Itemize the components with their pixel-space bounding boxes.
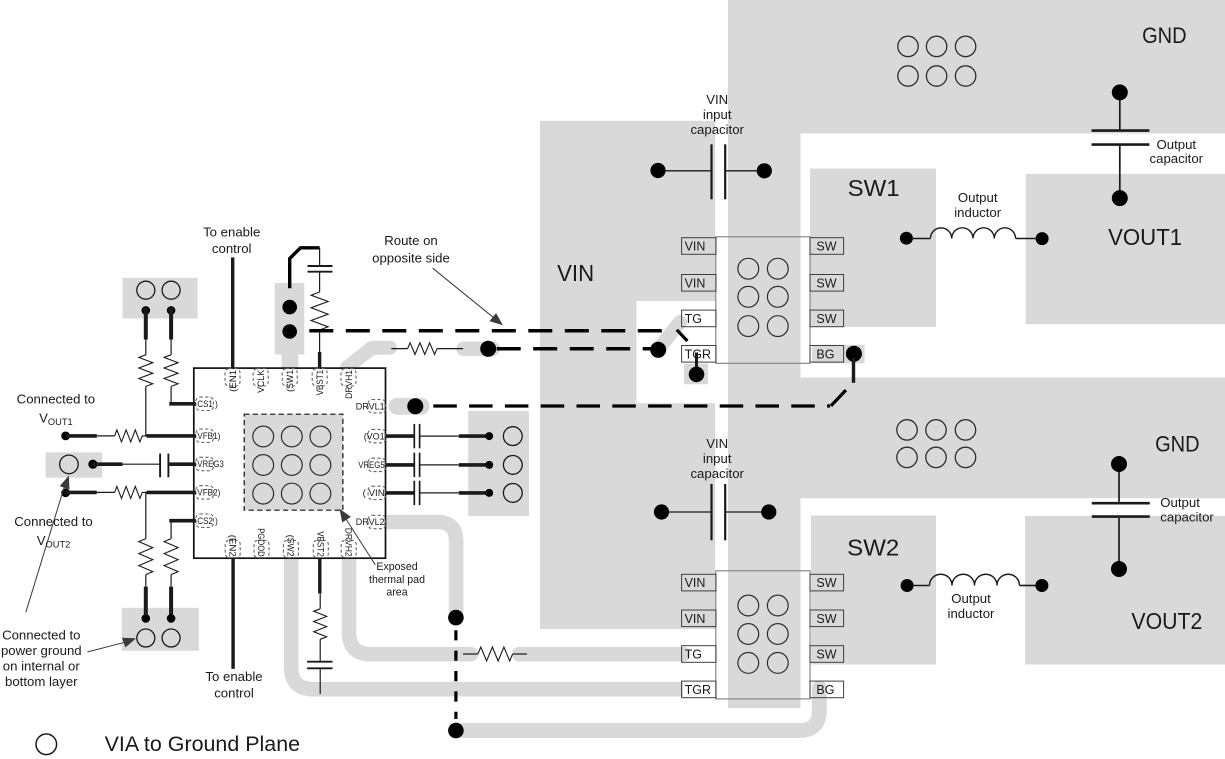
wire VFB1 pin stub — [147, 434, 196, 438]
svg-text:Connected to: Connected to — [2, 627, 80, 642]
node L1 left dot — [900, 232, 913, 245]
capacitor C-VIN bypass with wire and via — [386, 481, 523, 505]
wire R2 top lead — [170, 340, 172, 355]
capacitor C2 (BST1 bootstrap) — [308, 265, 333, 267]
svg-text:capacitor: capacitor — [1150, 151, 1204, 166]
via pad bottom-left (CS2/VFB2 ground vias) — [122, 608, 199, 651]
wire VFB1 thin lead — [97, 435, 115, 437]
resistor R9 (BST2 series) — [314, 609, 327, 640]
svg-text:TG: TG — [685, 648, 702, 662]
wire CS2 stub — [169, 519, 196, 523]
wire R5 bottom lead — [145, 575, 147, 587]
U1 pin VBST2 (bottom) — [313, 531, 328, 558]
U1 pin DRVL2 (right) — [356, 515, 386, 528]
svg-text:VFB2): VFB2) — [197, 488, 220, 498]
svg-text:SW2: SW2 — [847, 535, 899, 561]
via pad BST1 — [275, 283, 305, 355]
wire VFB2 thin lead — [97, 491, 115, 493]
U1 pin CS1 (left) — [196, 397, 218, 410]
via top-left 2 — [162, 281, 180, 299]
wire R1 bottom lead to VFB1 node — [145, 386, 147, 436]
wire R4 to VFB2 pin — [142, 491, 146, 493]
ground plane GND top copper pour — [729, 0, 1225, 134]
node C5 left dot — [654, 504, 669, 519]
via grid GND top plane (3x2 ground vias) — [898, 36, 976, 86]
wire R1 top lead — [145, 340, 147, 355]
node BST1 via dot lower — [282, 324, 297, 339]
svg-text:input: input — [703, 107, 732, 122]
via VREG3 pad — [60, 455, 79, 474]
node L2 right dot — [1035, 579, 1048, 592]
wire C1 to VREG3 pin — [169, 462, 196, 466]
svg-text:VOUT2: VOUT2 — [37, 533, 71, 550]
resistor R7 (BST1 series) — [311, 292, 328, 330]
wire CS2 down to R6 — [170, 521, 172, 539]
trace BG2 return to via — [463, 688, 819, 731]
node C6 bottom dot (VOUT1) — [1112, 190, 1128, 206]
node DRVL1 route via dot — [407, 398, 423, 414]
wire VREG3 thick stub — [93, 462, 123, 466]
U1 pin VREG5 (right) — [358, 458, 385, 471]
U1 pin VO1 (right) — [364, 429, 386, 442]
svg-text:control: control — [212, 241, 252, 256]
wire top-left stub 1 — [144, 308, 148, 340]
wire dashed route diagonal to BG1 — [831, 390, 846, 406]
trace DRVH1 to gate resistor — [347, 348, 390, 368]
node L1 right dot — [1036, 232, 1049, 245]
SW2 copper pour — [811, 516, 936, 665]
node BG2 route via dot — [448, 723, 464, 739]
svg-text:power ground: power ground — [1, 643, 82, 658]
svg-text:SW: SW — [816, 612, 836, 626]
junction dot VREG3 — [88, 460, 97, 469]
U1 pin SW2 (bottom) — [283, 535, 298, 558]
svg-text:bottom layer: bottom layer — [5, 674, 78, 689]
svg-text:TG: TG — [685, 312, 702, 326]
svg-text:Connected to: Connected to — [14, 514, 92, 529]
wire dashed route diagonal into TGR1 — [677, 330, 688, 341]
wire dashed route DRVL1 to BG1 (opposite side) — [433, 404, 830, 407]
junction dot top-left 2 — [167, 306, 176, 315]
wire C2 to R7 — [319, 272, 321, 292]
svg-text:VREG3: VREG3 — [197, 459, 224, 469]
trace pill before TGR1 route via — [464, 341, 493, 356]
wire R2 bottom lead to CS1 — [170, 386, 172, 403]
wire C2 top lead — [319, 248, 321, 266]
wire CS1 stub — [169, 402, 196, 406]
svg-text:TGR: TGR — [685, 683, 711, 697]
svg-text:Route on: Route on — [384, 233, 438, 248]
capacitor C-VO1 bypass with wire and via — [386, 424, 523, 448]
U1 pin VBST1 (top) — [312, 369, 327, 396]
U1 pin PGOOD (bottom) — [254, 528, 269, 558]
U1 pin EN2 (bottom) — [225, 535, 240, 558]
svg-text:VIN: VIN — [685, 576, 706, 590]
SW1 copper pour — [810, 169, 936, 327]
svg-text:thermal pad: thermal pad — [369, 574, 425, 586]
arrow exposed thermal pad — [345, 518, 375, 565]
svg-text:capacitor: capacitor — [1160, 510, 1214, 525]
wire SW1 to BST1 capacitor — [290, 248, 320, 288]
node TGR1 via dot — [689, 367, 705, 383]
svg-text:capacitor: capacitor — [690, 466, 744, 481]
trace via to TG1 pad — [659, 322, 681, 349]
resistor R8 (TG1 gate) — [408, 343, 437, 355]
wire TGR1 to via — [695, 353, 698, 375]
svg-text:SW: SW — [816, 576, 836, 590]
svg-text:(SW1: (SW1 — [285, 370, 295, 392]
capacitor C7 (output capacitor 2) — [1092, 502, 1150, 505]
junction dot bottom-left 1 — [142, 614, 151, 623]
transistor pair Q1 (SW1 power stage FETs) — [682, 237, 844, 363]
trace DRVH2 pin to TG2 (segment B) — [520, 647, 684, 662]
wire C5 left lead — [666, 511, 712, 513]
svg-text:(EN1: (EN1 — [228, 370, 238, 392]
svg-text:area: area — [386, 586, 407, 598]
svg-text:Connected to: Connected to — [17, 392, 95, 407]
ground plane GND lower copper pour — [728, 378, 1225, 499]
svg-text:VIN: VIN — [685, 276, 706, 290]
wire C7 top lead — [1118, 468, 1120, 502]
svg-text:To enable: To enable — [203, 225, 260, 240]
svg-text:VIN: VIN — [685, 612, 706, 626]
transistor pair Q2 (SW2 power stage FETs) — [682, 571, 844, 699]
wire R8 right lead — [437, 348, 463, 350]
via bottom-left 2 — [162, 629, 180, 647]
node L2 left dot — [901, 579, 914, 592]
svg-text:To enable: To enable — [205, 669, 262, 684]
wire dashed route DRVL2 to BG2 (opposite side) — [454, 630, 457, 719]
capacitor C3 (BST2 bootstrap) — [307, 661, 332, 663]
svg-text:VIN: VIN — [706, 92, 728, 107]
svg-text:Output: Output — [951, 591, 991, 606]
arrow route on opposite side — [433, 268, 495, 319]
svg-text:(EN2: (EN2 — [227, 535, 237, 557]
resistor R10 (TG2 gate) — [478, 647, 513, 661]
node C7 bottom dot (VOUT2) — [1111, 561, 1127, 577]
wire VFB2 thick stub — [65, 491, 97, 495]
node DRVL2 route via dot — [448, 610, 464, 626]
node route via dot B (at TG1) — [650, 342, 666, 358]
wire R6 bottom lead — [170, 575, 172, 587]
resistor R4 (VFB2 series) — [115, 486, 143, 498]
resistor R1 (VFB1 upper divider) — [139, 355, 153, 387]
U1 pin DRVH2 (bottom) — [341, 528, 356, 558]
svg-text:DRVH1: DRVH1 — [344, 370, 354, 399]
U1 pin DRVH1 (top) — [341, 369, 356, 399]
svg-text:Exposed: Exposed — [376, 561, 417, 573]
svg-text:control: control — [214, 686, 254, 701]
wire TG2 resistor left lead — [463, 653, 478, 655]
wire VFB1 thick stub — [65, 434, 97, 438]
svg-text:capacitor: capacitor — [690, 122, 744, 137]
VIN plane copper pour — [540, 121, 715, 629]
svg-text:VBST1: VBST1 — [315, 370, 325, 396]
U1 pin VFB1 (left) — [196, 429, 220, 442]
wire C5 right lead — [725, 511, 764, 513]
svg-text:SW: SW — [816, 276, 836, 290]
U1 pin VREG3 (left) — [196, 457, 224, 470]
resistor R6 (CS2) — [164, 539, 178, 575]
svg-text:DRVL2: DRVL2 — [356, 517, 385, 527]
svg-text:CS2 ): CS2 ) — [197, 516, 218, 526]
node C7 top dot (GND) — [1111, 456, 1127, 472]
legend via symbol — [36, 734, 57, 755]
wire C4 right lead — [725, 170, 763, 172]
svg-text:VIN: VIN — [557, 260, 594, 286]
svg-text:PGOOD: PGOOD — [256, 528, 266, 557]
svg-text:GND: GND — [1155, 432, 1200, 457]
svg-text:VOUT2: VOUT2 — [1131, 608, 1202, 634]
node C6 top dot (GND) — [1112, 84, 1128, 100]
node C4 left dot — [650, 163, 665, 178]
capacitor C5 (VIN input capacitor 2) — [710, 484, 712, 540]
wire dashed route to TG1 (opposite side) — [497, 347, 651, 351]
ground plane central copper column — [728, 0, 801, 708]
wire C6 bottom lead — [1119, 146, 1121, 194]
wire R9 to C3 — [319, 639, 321, 661]
U1 pin VIN (right) — [363, 486, 386, 499]
svg-text:VREG5: VREG5 — [358, 460, 385, 470]
via pad top-left (CS1/VFB1 ground vias) — [123, 278, 198, 319]
U1 pin EN1 (top) — [225, 369, 240, 392]
svg-text:inductor: inductor — [954, 205, 1002, 220]
wire R7 to VBST1 route — [319, 331, 321, 352]
svg-text:SW: SW — [816, 312, 836, 326]
node VFB1 terminal dot — [61, 432, 70, 441]
svg-text:VOUT1: VOUT1 — [39, 411, 73, 428]
wire VBST2 pin stub — [318, 558, 321, 593]
svg-text:SW: SW — [816, 648, 836, 662]
resistor R3 (VFB1 series) — [115, 430, 143, 442]
U1 pin CS2 (left) — [196, 514, 218, 527]
svg-text:(SW2: (SW2 — [286, 535, 296, 557]
wire bottom-left stub 1 — [144, 587, 148, 619]
svg-text:( VIN: ( VIN — [363, 488, 385, 498]
wire VBST2 to R9 — [319, 593, 321, 608]
svg-text:(VO1: (VO1 — [364, 431, 385, 441]
svg-text:opposite side: opposite side — [372, 250, 450, 265]
svg-text:on internal or: on internal or — [3, 658, 81, 673]
svg-text:SW: SW — [816, 240, 836, 254]
trace DRVL2 to via — [386, 522, 456, 611]
arrow connected to VOUT2 to VREG3 via — [26, 483, 66, 612]
svg-text:BG: BG — [816, 683, 834, 697]
trace DRVL1 pad pill — [397, 398, 421, 415]
svg-text:DRVL1: DRVL1 — [356, 401, 385, 411]
svg-text:Output: Output — [1157, 137, 1197, 152]
wire DRVH1 resistor left lead — [391, 348, 407, 350]
svg-text:VBST2: VBST2 — [315, 531, 325, 557]
svg-text:GND: GND — [1142, 23, 1187, 48]
svg-text:input: input — [703, 451, 732, 466]
wire VBST1 pin stub — [318, 352, 321, 368]
svg-text:VCLK: VCLK — [256, 369, 266, 393]
node VFB2 terminal dot — [61, 488, 70, 497]
U1 pin SW1 (top) — [282, 369, 297, 392]
svg-text:SW1: SW1 — [848, 175, 900, 201]
node C4 right dot — [757, 163, 772, 178]
pad BG1 — [812, 345, 865, 364]
svg-text:VIN: VIN — [685, 240, 706, 254]
wire top-left stub 2 — [169, 308, 173, 340]
VOUT2 copper pour — [1025, 516, 1225, 665]
wire C4 left lead — [663, 170, 712, 172]
node C5 right dot — [761, 504, 776, 519]
wire dashed route BST1 to TGR1 (opposite side) — [309, 329, 672, 333]
op-amp U1 controller IC body with exposed thermal pad and vias — [194, 368, 386, 558]
svg-text:BG: BG — [816, 347, 834, 361]
svg-text:Output: Output — [958, 190, 998, 205]
svg-text:VOUT1: VOUT1 — [1108, 224, 1182, 250]
svg-text:DRVH2: DRVH2 — [343, 528, 353, 557]
via top-left 1 — [137, 281, 155, 299]
svg-text:VIN: VIN — [706, 436, 728, 451]
wire BG1 via stub — [852, 358, 855, 383]
arrow connected to power ground — [87, 642, 124, 652]
via pad TGR1 — [684, 364, 708, 385]
U1 pin VCLK (top) — [253, 369, 268, 393]
capacitor C1 (VREG3 bypass) — [159, 454, 161, 478]
svg-text:CS1 ): CS1 ) — [197, 399, 218, 409]
inductor L2 (output inductor 2) — [907, 585, 929, 587]
wire EN1 to enable control — [231, 257, 234, 368]
wire C7 bottom lead — [1118, 518, 1120, 565]
svg-text:VFB1): VFB1) — [197, 431, 220, 441]
VOUT1 copper pour — [1026, 174, 1225, 324]
wire VFB2 pin stub — [147, 491, 196, 495]
capacitor C6 (output capacitor 1) — [1092, 129, 1150, 132]
capacitor C4 (VIN input capacitor 1) — [710, 144, 712, 199]
wire VREG3 thin lead — [123, 463, 160, 465]
wire TG2 resistor right lead — [513, 653, 527, 655]
junction dot bottom-left 2 — [167, 614, 176, 623]
junction dot top-left 1 — [142, 306, 151, 315]
via bottom-left 1 — [137, 629, 155, 647]
trace DRVH2 pin to TG2 (segment A) — [349, 559, 471, 654]
trace SW2 pin to TGR2 — [291, 559, 683, 689]
node BST1 via dot upper — [282, 300, 297, 315]
wire R3 to VFB1 pin — [142, 435, 146, 437]
trace SW1 pin stem — [282, 354, 299, 369]
node BG1 via dot — [846, 346, 862, 362]
resistor R5 (VFB2 lower divider) — [139, 539, 153, 575]
wire C3 bottom lead — [319, 668, 321, 694]
svg-text:VIA to Ground Plane: VIA to Ground Plane — [105, 733, 301, 756]
wire VFB2 node down to R5 — [145, 492, 147, 538]
via pad column right of IC (VO1/VREG5/VIN vias) — [468, 411, 529, 516]
node route via dot A — [480, 341, 496, 357]
wire bottom-left stub 2 — [169, 587, 173, 619]
U1 pin DRVL1 (right) — [356, 400, 386, 413]
U1 pin VFB2 (left) — [196, 486, 220, 499]
wire EN2 to enable control — [231, 558, 234, 669]
svg-text:inductor: inductor — [948, 606, 996, 621]
via pad VREG3 — [46, 452, 103, 477]
svg-text:Output: Output — [1160, 495, 1200, 510]
inductor L1 (output inductor 1) — [906, 238, 930, 240]
via grid GND lower plane (3x2 ground vias) — [897, 420, 976, 468]
capacitor C-VREG5 bypass with wire and via — [386, 453, 523, 477]
wire C6 top lead — [1119, 96, 1121, 129]
resistor R2 (CS1) — [164, 355, 178, 387]
